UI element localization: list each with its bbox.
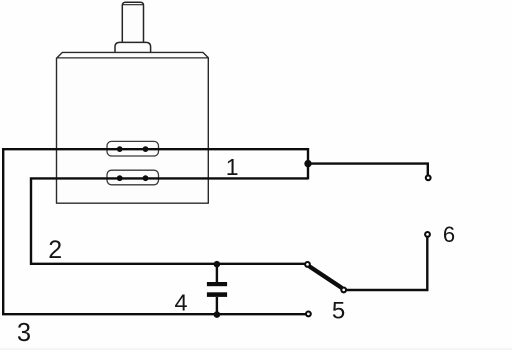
svg-text:3: 3	[17, 319, 31, 347]
svg-text:5: 5	[332, 298, 345, 325]
svg-text:2: 2	[48, 236, 62, 264]
svg-text:4: 4	[174, 290, 187, 316]
svg-text:6: 6	[443, 222, 455, 247]
svg-text:1: 1	[226, 154, 239, 180]
